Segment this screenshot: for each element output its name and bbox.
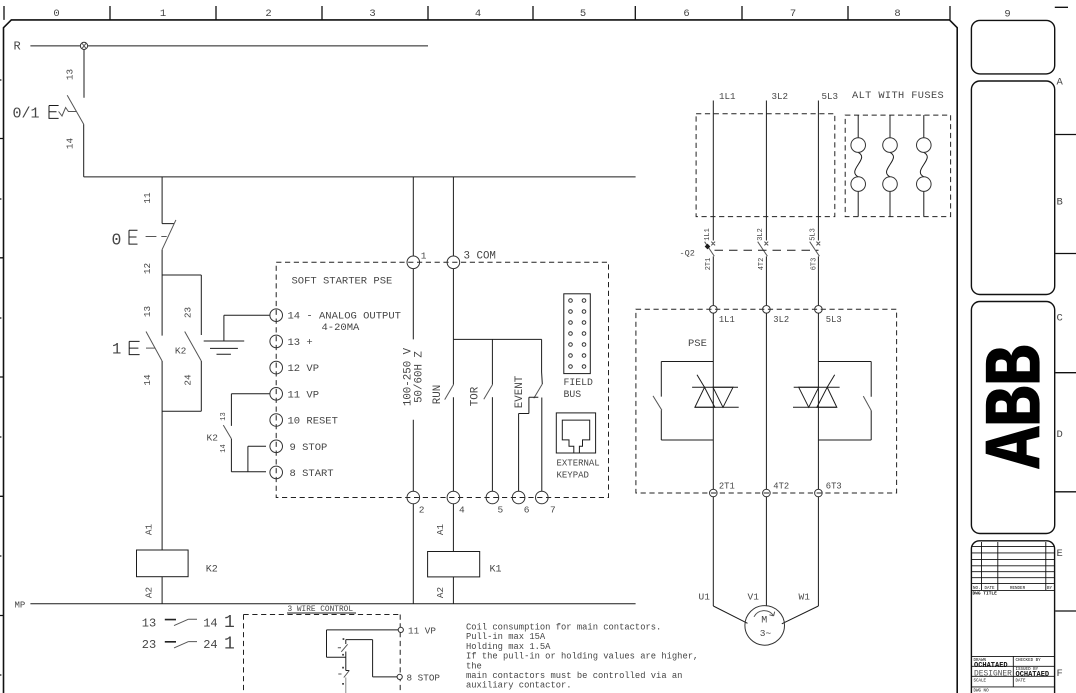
- svg-text:0/1: 0/1: [13, 106, 40, 123]
- svg-text:13: 13: [142, 306, 153, 317]
- svg-text:K2: K2: [206, 565, 218, 576]
- svg-text:1L1: 1L1: [719, 91, 736, 102]
- svg-text:10 RESET: 10 RESET: [288, 416, 338, 428]
- svg-text:RENDER: RENDER: [1010, 587, 1026, 591]
- svg-text:5: 5: [498, 505, 504, 516]
- svg-text:1L1: 1L1: [719, 315, 735, 325]
- svg-text:14 - ANALOG OUTPUT: 14 - ANALOG OUTPUT: [288, 311, 401, 323]
- svg-text:OCHATAED: OCHATAED: [1016, 671, 1050, 679]
- svg-text:11: 11: [142, 192, 153, 204]
- svg-text:Holding max 1.5A: Holding max 1.5A: [466, 642, 551, 652]
- svg-text:OCHATAED: OCHATAED: [974, 662, 1008, 670]
- svg-text:1L1: 1L1: [704, 228, 712, 241]
- svg-text:B: B: [1057, 197, 1063, 209]
- svg-text:4: 4: [475, 8, 481, 20]
- svg-text:23: 23: [183, 307, 194, 318]
- svg-text:3L2: 3L2: [772, 91, 789, 102]
- svg-text:5L3: 5L3: [826, 315, 842, 325]
- svg-text:F: F: [1057, 668, 1063, 680]
- svg-text:DWG NO: DWG NO: [974, 690, 990, 693]
- svg-text:24: 24: [183, 374, 194, 386]
- svg-text:U1: U1: [699, 592, 711, 603]
- svg-text:14: 14: [65, 138, 76, 150]
- svg-text:BY: BY: [1047, 587, 1053, 591]
- svg-text:A2: A2: [435, 587, 446, 598]
- svg-text:SCALE: SCALE: [974, 679, 987, 683]
- svg-text:K1: K1: [490, 565, 502, 576]
- svg-text:4T2: 4T2: [773, 482, 789, 492]
- svg-text:Coil consumption for main cont: Coil consumption for main contactors.: [466, 623, 661, 633]
- svg-text:4: 4: [459, 505, 465, 516]
- svg-text:3 WIRE CONTROL: 3 WIRE CONTROL: [288, 606, 354, 614]
- svg-text:DESIGNER: DESIGNER: [974, 670, 1012, 679]
- svg-text:4T2: 4T2: [758, 258, 766, 271]
- svg-text:EXTERNAL: EXTERNAL: [557, 459, 600, 469]
- svg-text:DWG TITLE: DWG TITLE: [973, 591, 998, 597]
- svg-text:0: 0: [53, 8, 59, 20]
- svg-text:14: 14: [220, 444, 228, 452]
- svg-text:8: 8: [894, 8, 900, 20]
- svg-text:9: 9: [1004, 9, 1010, 21]
- svg-text:E: E: [1057, 548, 1063, 560]
- svg-text:5L3: 5L3: [810, 228, 818, 241]
- svg-text:6: 6: [524, 505, 530, 516]
- svg-text:MP: MP: [15, 601, 26, 611]
- svg-text:12 VP: 12 VP: [288, 363, 320, 375]
- svg-text:TOR: TOR: [470, 386, 482, 406]
- svg-text:R: R: [14, 39, 21, 53]
- svg-text:7: 7: [550, 505, 556, 516]
- svg-text:50/60H Z: 50/60H Z: [414, 351, 426, 403]
- svg-text:K2: K2: [207, 433, 219, 444]
- svg-text:1: 1: [224, 613, 235, 633]
- svg-text:3: 3: [369, 8, 375, 20]
- svg-text:1: 1: [160, 8, 166, 20]
- svg-text:KEYPAD: KEYPAD: [557, 471, 589, 481]
- svg-text:SOFT STARTER PSE: SOFT STARTER PSE: [292, 276, 393, 288]
- svg-text:If the pull-in or holding valu: If the pull-in or holding values are hig…: [466, 652, 698, 662]
- svg-text:9 STOP: 9 STOP: [290, 442, 328, 454]
- svg-text:DATE: DATE: [985, 587, 996, 591]
- svg-text:5L3: 5L3: [822, 91, 839, 102]
- svg-text:6T3: 6T3: [811, 258, 819, 271]
- svg-text:2T1: 2T1: [705, 258, 713, 271]
- svg-text:3~: 3~: [760, 628, 772, 639]
- svg-text:A2: A2: [144, 587, 155, 598]
- svg-text:ABB: ABB: [973, 346, 1064, 469]
- svg-text:2: 2: [419, 505, 425, 516]
- svg-text:3 COM: 3 COM: [464, 251, 496, 263]
- svg-text:A: A: [1057, 77, 1064, 89]
- svg-text:13 +: 13 +: [288, 337, 313, 349]
- svg-text:14: 14: [203, 616, 217, 630]
- svg-text:13: 13: [65, 69, 76, 80]
- svg-text:C: C: [1057, 313, 1063, 325]
- svg-text:8 START: 8 START: [290, 468, 334, 480]
- svg-text:the: the: [466, 661, 482, 671]
- svg-text:2T1: 2T1: [719, 482, 735, 492]
- svg-text:1: 1: [421, 251, 427, 262]
- svg-text:2: 2: [265, 8, 271, 20]
- svg-text:4-20MA: 4-20MA: [322, 322, 361, 334]
- svg-text:M: M: [761, 616, 767, 627]
- svg-text:6: 6: [683, 8, 689, 20]
- svg-text:K2: K2: [175, 346, 187, 357]
- svg-text:main contactors must be contro: main contactors must be controlled via a…: [466, 671, 682, 681]
- svg-text:7: 7: [790, 8, 796, 20]
- svg-text:8 STOP: 8 STOP: [407, 673, 441, 684]
- svg-text:FIELD: FIELD: [564, 377, 594, 388]
- svg-text:0: 0: [112, 231, 122, 250]
- svg-text:3L2: 3L2: [757, 228, 765, 241]
- svg-text:EVENT: EVENT: [514, 375, 526, 408]
- svg-text:13: 13: [220, 412, 228, 420]
- svg-text:6T3: 6T3: [826, 482, 842, 492]
- svg-text:V1: V1: [748, 592, 760, 603]
- svg-text:5: 5: [580, 8, 586, 20]
- svg-text:1: 1: [224, 635, 235, 655]
- svg-text:11 VP: 11 VP: [288, 389, 320, 401]
- svg-text:CHECKED BY: CHECKED BY: [1016, 659, 1042, 663]
- svg-text:DATE: DATE: [1016, 679, 1027, 683]
- svg-text:3L2: 3L2: [773, 315, 789, 325]
- svg-text:12: 12: [142, 263, 153, 274]
- svg-text:-Q2: -Q2: [680, 249, 695, 259]
- svg-text:ALT WITH FUSES: ALT WITH FUSES: [852, 90, 944, 102]
- svg-text:13: 13: [142, 616, 156, 630]
- svg-text:1: 1: [112, 341, 121, 359]
- svg-text:23: 23: [142, 638, 156, 652]
- svg-text:24: 24: [203, 638, 217, 652]
- svg-text:auxiliary contactor.: auxiliary contactor.: [466, 681, 572, 691]
- svg-text:RUN: RUN: [432, 385, 444, 404]
- svg-text:A1: A1: [144, 524, 155, 536]
- svg-text:PSE: PSE: [688, 338, 707, 350]
- svg-text:W1: W1: [799, 592, 811, 603]
- svg-text:BUS: BUS: [564, 389, 582, 400]
- svg-text:11 VP: 11 VP: [408, 626, 436, 637]
- svg-text:NO.: NO.: [973, 587, 981, 591]
- svg-text:14: 14: [142, 374, 153, 386]
- svg-text:Pull-in max 15A: Pull-in max 15A: [466, 632, 546, 642]
- svg-text:A1: A1: [435, 524, 446, 536]
